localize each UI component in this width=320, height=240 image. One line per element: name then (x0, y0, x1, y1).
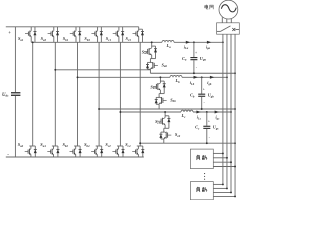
node + (DC positive terminal) (8, 30, 11, 35)
node Cb return (201, 108, 203, 110)
svg-text:+: + (203, 87, 205, 91)
svg-text:Udc: Udc (2, 93, 9, 98)
node line4 to neutral (234, 108, 236, 110)
wire line3 after Lb (182, 76, 227, 78)
label Cb (190, 92, 195, 98)
label Ugc (213, 125, 220, 131)
node line6 to neutral (234, 142, 236, 144)
node load1-b (226, 157, 228, 159)
label Sb2 (63, 142, 69, 148)
wire leg 1 (32, 42, 34, 146)
label igb (207, 80, 212, 86)
node line5 to grid phase c (230, 111, 232, 113)
inductor Lb (170, 75, 182, 77)
label Sa2 (18, 142, 24, 148)
label Sc1 (106, 36, 112, 42)
node Sb5 collector tap (159, 76, 161, 78)
transistor Sc5 (branch c upper) (157, 112, 171, 143)
label Sa6 (162, 62, 168, 68)
node leg3 junction (77, 76, 79, 78)
transistor Sb2 (lower row cell 3) (70, 146, 82, 157)
label Lc (181, 113, 187, 119)
node leg5 junction (119, 111, 121, 113)
svg-text:+: + (208, 120, 210, 124)
current arrow igc (215, 111, 219, 114)
label Sc5 (155, 119, 161, 125)
current arrow iLb (194, 76, 198, 79)
node load1-n (234, 166, 236, 168)
capacitor Ca (190, 42, 197, 73)
node line3 to grid phase b (226, 76, 228, 78)
current arrow iga (207, 41, 211, 44)
wire DC link left leg lower (14, 96, 16, 157)
label Sa1 (18, 36, 24, 42)
node Cb tap (201, 76, 203, 78)
label Ugb (208, 92, 215, 98)
transistor Sa2 (lower row cell 1) (25, 146, 37, 157)
transistor Sa5 (branch a upper) (144, 42, 158, 73)
transistor Sc4 (lower row cell 6) (132, 146, 144, 157)
label 电网 (205, 5, 213, 10)
label iLa (184, 44, 189, 50)
transistor Sa3 (upper row cell 2) (48, 27, 59, 43)
wire bottom DC bus (6, 156, 144, 158)
label Sc3 (126, 36, 132, 42)
node - (DC negative terminal) (7, 152, 9, 158)
wire line5 (leg5 to Lc branch) (120, 111, 181, 113)
label Sa3 (41, 36, 47, 42)
transistor Sc3 (upper row cell 6) (133, 29, 144, 42)
label iLb (190, 80, 195, 86)
wire leg 5 (119, 42, 121, 146)
label Sc4 (125, 142, 131, 148)
wire line2 (leg2 to switch Sa bottom) (55, 69, 150, 71)
node line1 to grid phase a (222, 41, 224, 43)
current arrow iLa (186, 41, 190, 44)
label iLc (197, 114, 202, 120)
wire grid phase a vertical (222, 34, 224, 184)
wire DC link left leg upper (14, 27, 16, 92)
transistor Sc1 (upper row cell 5) (113, 27, 124, 43)
node Cc return (206, 142, 208, 144)
label Sa4 (40, 142, 46, 148)
wire top DC bus (6, 26, 139, 28)
label igc (216, 114, 221, 120)
label La (166, 43, 172, 49)
capacitor Udc (DC link) (11, 92, 20, 96)
wire leg 6 (139, 42, 141, 146)
svg-text:+: + (195, 51, 197, 55)
wire load1 stub a (213, 152, 223, 154)
label Cc (195, 125, 200, 131)
node load2-b (226, 187, 228, 189)
load box 1 (190, 149, 213, 169)
label Sb1 (63, 36, 69, 42)
transistor Sb4 (lower row cell 4) (91, 146, 103, 157)
current arrow igb (210, 76, 214, 79)
node load1-a (222, 152, 224, 154)
breaker switch symbol (217, 26, 231, 32)
node return a to neutral (234, 72, 236, 74)
node Cc tap (206, 111, 208, 113)
wire top bus bend to cell S6 (139, 27, 143, 29)
wire line1 (leg1 to La branch) (31, 41, 162, 43)
label Sb3 (84, 36, 90, 42)
node load2-a (222, 183, 224, 185)
wire grid feeders circle to breaker (222, 17, 231, 23)
node leg6 junction (139, 142, 141, 144)
inductor Lc (181, 110, 193, 112)
label Udc (2, 93, 9, 98)
node leg1 junction (32, 41, 34, 43)
transistor Sa4 (lower row cell 2) (47, 146, 59, 157)
label Sb5 (150, 84, 156, 90)
wire return line branch a (150, 72, 235, 74)
label 负载 (load 1) (196, 155, 207, 160)
transistor Sc2 (lower row cell 5) (112, 146, 124, 157)
wire grid neutral vertical (234, 34, 236, 196)
wire load2 stub a (213, 183, 223, 185)
capacitor Cb (198, 77, 205, 109)
svg-text:+: + (8, 30, 11, 35)
inductor La (162, 40, 174, 42)
transistor Sb5 (branch b upper) (153, 77, 167, 109)
wire grid phase b vertical (226, 34, 228, 188)
wire load2 stub c (213, 191, 231, 193)
label Sc6 (175, 132, 181, 138)
label Ca (182, 56, 187, 62)
transistor Sb1 (upper row cell 3) (70, 27, 81, 43)
node leg4 junction (98, 108, 100, 110)
breaker x symbol (232, 28, 239, 31)
node load2-n (234, 195, 236, 197)
label Sb4 (84, 142, 90, 148)
node leg2 junction (54, 69, 56, 71)
node Ca return (193, 72, 195, 74)
current arrow iLc (196, 111, 200, 114)
wire leg 3 (77, 42, 79, 146)
wire load2 stub n (213, 195, 235, 197)
wire line6 (leg6 to switch Sc bottom / return) (140, 142, 235, 144)
wire load1 stub n (213, 166, 235, 168)
node load1-c (230, 161, 232, 163)
node Sa5 collector tap (151, 41, 153, 43)
node Ca tap (193, 41, 195, 43)
wire line4 (leg4 to switch Sb bottom / return) (99, 108, 235, 110)
wire load1 stub b (213, 157, 227, 159)
node load2-c (230, 191, 232, 193)
wire leg 2 (54, 42, 56, 146)
transistor Sb3 (upper row cell 4) (91, 27, 102, 43)
node Sc5 collector tap (164, 111, 166, 113)
label iga (206, 44, 211, 50)
label 负载 (load 2) (196, 187, 207, 192)
label Sa5 (142, 49, 148, 55)
label Sb6 (170, 97, 176, 103)
label Lb (175, 78, 181, 84)
wire leg 4 (98, 42, 100, 146)
AC source circle (grid) (219, 0, 238, 19)
wire line1 after La (174, 41, 223, 43)
breaker box (217, 23, 240, 34)
label Uga (200, 56, 207, 62)
label Sc2 (105, 142, 111, 148)
wire grid phase c vertical (230, 34, 232, 192)
ellipsis dots between loads (204, 173, 205, 180)
wire load1 stub c (213, 161, 231, 163)
capacitor Cc (203, 112, 210, 143)
load box 2 (190, 182, 213, 200)
wire load2 stub b (213, 187, 227, 189)
wire line5 after Lc (193, 111, 231, 113)
wire line3 (leg3 to Lb branch) (78, 76, 171, 78)
transistor Sa1 (upper row cell 1) (25, 27, 36, 43)
